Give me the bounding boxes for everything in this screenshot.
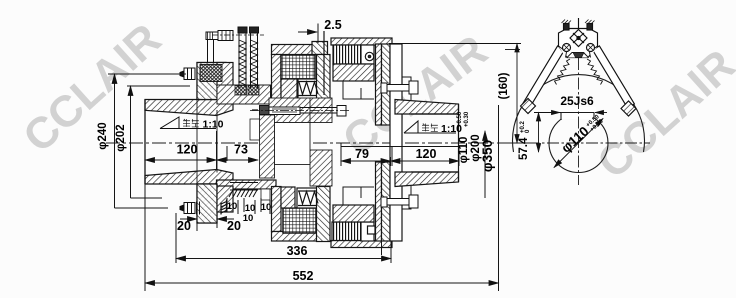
svg-text:73: 73 <box>234 143 248 157</box>
svg-text:120: 120 <box>416 147 437 161</box>
svg-text:10: 10 <box>243 213 254 224</box>
svg-text:57.4: 57.4 <box>518 137 530 160</box>
svg-text:2.5: 2.5 <box>324 18 341 32</box>
svg-text:+0.30: +0.30 <box>464 111 470 127</box>
svg-text:10: 10 <box>261 202 272 213</box>
svg-text:(160): (160) <box>498 72 510 99</box>
svg-text:φ110: φ110 <box>458 137 470 164</box>
svg-text:20: 20 <box>177 219 191 233</box>
svg-text:1:10: 1:10 <box>203 119 224 131</box>
svg-text:φ350: φ350 <box>480 140 495 172</box>
svg-text:120: 120 <box>177 143 198 157</box>
svg-text:CCLAIR: CCLAIR <box>14 14 170 162</box>
svg-text:552: 552 <box>293 269 314 283</box>
svg-text:φ202: φ202 <box>115 124 127 151</box>
svg-text:φ240: φ240 <box>97 122 109 149</box>
svg-text:25Js6: 25Js6 <box>560 94 594 108</box>
svg-text:φ110: φ110 <box>558 124 591 156</box>
svg-text:79: 79 <box>355 147 369 161</box>
svg-text:336: 336 <box>287 244 308 258</box>
svg-text:+0.50: +0.50 <box>457 111 463 127</box>
svg-text:CCLAIR: CCLAIR <box>588 40 736 188</box>
svg-text:10: 10 <box>227 201 238 212</box>
svg-text:20: 20 <box>227 219 241 233</box>
